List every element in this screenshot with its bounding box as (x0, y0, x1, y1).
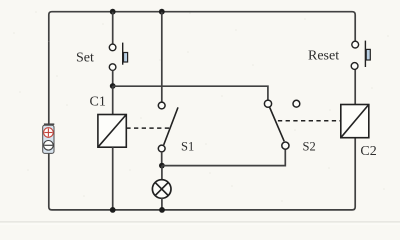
svg-text:S1: S1 (181, 139, 194, 153)
dashed link S2 to C2 (278, 120, 341, 122)
relay coil C2 (341, 105, 369, 138)
faint paper speckle texture (decorative) (13, 11, 389, 202)
node top-mid junction (159, 9, 165, 15)
node bottom-mid junction (159, 207, 165, 213)
wire lamp to bottom (161, 198, 163, 210)
wire C1 to bottom (112, 147, 114, 210)
wire node down to C1 (112, 86, 114, 115)
battery B1 (43, 124, 55, 153)
pushbutton Set (109, 43, 127, 71)
wire top to Set button (112, 12, 114, 44)
wire main loop (49, 12, 355, 210)
pushbutton Reset (351, 41, 370, 70)
wire node to S2 top (113, 86, 268, 100)
node top-left junction (110, 9, 116, 15)
svg-text:S2: S2 (303, 139, 316, 153)
dashed link C1 to S1 (126, 127, 169, 129)
node bottom-left junction (110, 207, 116, 213)
switch S2 (264, 100, 299, 149)
switch S1 (158, 102, 178, 152)
lamp (152, 180, 171, 199)
wire S1 to node (161, 152, 163, 166)
svg-text:Set: Set (76, 51, 94, 66)
wire right mid segment (354, 69, 356, 104)
relay coil C1 (98, 115, 126, 148)
node below Set (110, 83, 116, 89)
node above lamp (159, 163, 165, 169)
wire Set to node (112, 70, 114, 86)
wire top to S1 (161, 12, 163, 103)
svg-text:C2: C2 (360, 144, 376, 159)
wire lamp row to S2 bottom (162, 149, 285, 165)
wire node to lamp (161, 166, 163, 181)
svg-text:C1: C1 (90, 95, 106, 110)
svg-text:Reset: Reset (308, 48, 339, 63)
bottom faint page edge (0, 221, 400, 223)
